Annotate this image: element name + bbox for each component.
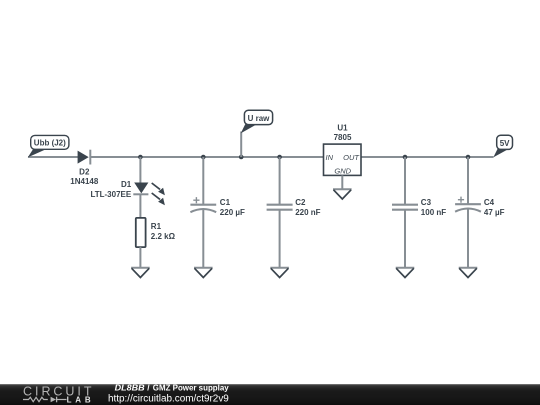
capacitor C2 xyxy=(267,205,293,210)
wire: D2 cathode to U1 IN xyxy=(91,156,325,158)
svg-text:5V: 5V xyxy=(500,139,510,148)
svg-text:100 nF: 100 nF xyxy=(421,208,446,217)
svg-text:http://circuitlab.com/ct9r2v9: http://circuitlab.com/ct9r2v9 xyxy=(108,394,229,405)
capacitor C4 (polarized) xyxy=(455,197,481,212)
flag U raw xyxy=(241,110,273,133)
svg-text:GMZ Power supplay: GMZ Power supplay xyxy=(153,384,229,393)
diode D2 xyxy=(78,150,91,165)
capacitor C3 xyxy=(392,205,418,210)
ground (C4) xyxy=(459,268,478,278)
wire: D1 cathode to R1 xyxy=(139,194,141,218)
svg-text:LAB: LAB xyxy=(67,395,91,404)
svg-text:2.2 kΩ: 2.2 kΩ xyxy=(151,232,176,241)
logo diode xyxy=(51,397,56,403)
wire: junction down to C2 xyxy=(279,157,281,205)
svg-text:C2: C2 xyxy=(295,198,306,207)
ground (C3) xyxy=(396,268,415,278)
svg-text:C4: C4 xyxy=(484,198,495,207)
node: junction at U raw flag xyxy=(239,155,244,160)
svg-text:DL8BB: DL8BB xyxy=(115,384,145,393)
wire: junction down to D1 anode xyxy=(139,157,141,183)
resistor R1 xyxy=(136,218,146,247)
node: junction at C1 xyxy=(201,155,206,160)
wire: C1 to ground xyxy=(202,209,204,268)
footer bar xyxy=(0,384,540,405)
ground (R1) xyxy=(131,268,150,278)
svg-text:C1: C1 xyxy=(220,198,231,207)
ground (C2) xyxy=(270,268,289,278)
node: junction at C4 xyxy=(466,155,471,160)
wire: C4 to ground xyxy=(467,209,469,268)
svg-text:D2: D2 xyxy=(79,167,90,176)
svg-text:C3: C3 xyxy=(421,198,432,207)
wire: C2 to ground xyxy=(279,210,281,268)
node: junction at C2 xyxy=(277,155,282,160)
svg-text:LTL-307EE: LTL-307EE xyxy=(90,190,131,199)
node: junction at D1 branch xyxy=(138,155,143,160)
flag Ubb (J2) xyxy=(28,135,69,157)
svg-text:7805: 7805 xyxy=(334,133,352,142)
LED D1 xyxy=(133,183,165,206)
wire: U1 OUT to 5V flag anchor xyxy=(361,156,494,158)
op-amp U1 regulator 7805 xyxy=(324,144,362,176)
svg-text:U1: U1 xyxy=(337,124,348,133)
ground (C1) xyxy=(194,268,213,278)
ground (U1) xyxy=(333,189,352,199)
svg-text:U raw: U raw xyxy=(248,114,271,123)
wire: junction down to C3 xyxy=(404,157,406,205)
svg-text:Ubb (J2): Ubb (J2) xyxy=(34,139,66,148)
node: junction at C3 xyxy=(403,155,408,160)
svg-text:R1: R1 xyxy=(151,222,162,231)
svg-text:D1: D1 xyxy=(121,180,132,189)
svg-text:IN: IN xyxy=(326,153,334,162)
wire: U1 GND stem xyxy=(341,175,343,189)
logo resistor zigzag xyxy=(23,397,48,401)
svg-text:220 nF: 220 nF xyxy=(295,208,320,217)
svg-text:1N4148: 1N4148 xyxy=(70,177,99,186)
wire: junction down to C1 xyxy=(202,157,204,205)
svg-text:220 µF: 220 µF xyxy=(220,208,245,217)
flag 5V xyxy=(493,135,512,157)
wire: left rail from Ubb anchor to D2 anode xyxy=(28,156,78,158)
svg-text:OUT: OUT xyxy=(343,153,360,162)
svg-text:GND: GND xyxy=(334,167,351,176)
wire: R1 to ground xyxy=(139,247,141,268)
wire: C3 to ground xyxy=(404,210,406,268)
capacitor C1 (polarized) xyxy=(190,197,216,212)
wire: U raw stem xyxy=(240,132,242,158)
svg-text:47 µF: 47 µF xyxy=(484,208,505,217)
wire: junction down to C4 xyxy=(467,157,469,204)
